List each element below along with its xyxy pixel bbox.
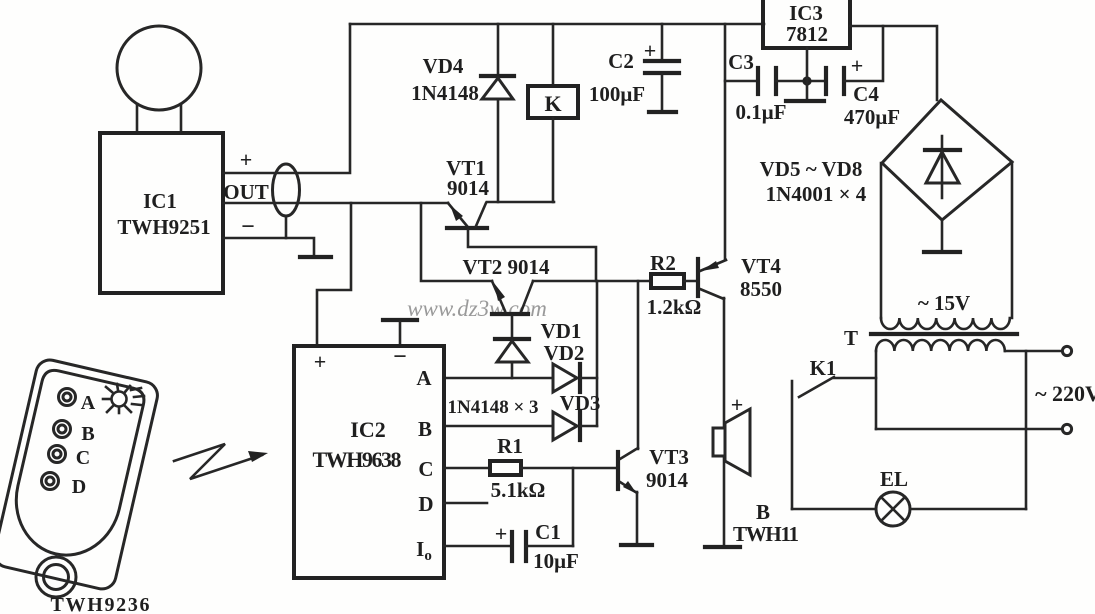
wire row B from IC2 [444,425,553,428]
transistor VT4 emitter [700,260,726,271]
svg-text:C: C [418,457,433,481]
node junction dot [802,76,811,85]
capacitor C2 plates [645,59,679,63]
svg-text:+: + [731,392,744,417]
capacitor C3 0.1uF plates [756,68,760,94]
transistor VT1 9014 emitter [448,203,467,226]
transistor VT3 base bar [616,452,620,489]
svg-text:TWH9638: TWH9638 [313,447,402,472]
svg-text:D: D [72,476,86,498]
ground under VT3 [621,543,652,547]
wire IC3 output to bridge top [850,26,937,100]
svg-text:0.1μF: 0.1μF [736,100,787,124]
wire VT4 collector down to speaker [723,298,726,428]
svg-text:D: D [418,492,433,516]
wire bridge left corner down to secondary [880,163,883,318]
bridge bottom stem [941,220,944,250]
svg-text:C1: C1 [535,520,561,544]
svg-text:470μF: 470μF [844,105,900,129]
svg-text:K1: K1 [810,356,837,380]
svg-text:K: K [544,91,561,116]
relay K bottom lead [552,118,555,202]
transistor VT4 collector [700,289,724,299]
svg-text:10μF: 10μF [533,549,579,573]
svg-text:+: + [314,349,327,374]
LED sun icon on remote [103,384,144,413]
wire speaker down [723,456,726,545]
svg-text:1.2kΩ: 1.2kΩ [647,295,702,319]
svg-text:C3: C3 [728,50,754,74]
svg-text:IC1: IC1 [143,189,177,213]
svg-text:TWH9251: TWH9251 [117,215,210,239]
remote button B [54,421,71,438]
ground under C2 [649,110,676,114]
svg-text:1N4148 × 3: 1N4148 × 3 [447,397,538,418]
wire row C from IC2 [444,467,490,470]
transistor VT2 9014 emitter [492,281,505,311]
svg-text:~ 15V: ~ 15V [918,291,970,315]
bridge inner diode [925,148,960,152]
svg-text:−: − [241,214,255,240]
svg-text:B: B [418,417,432,441]
wire mic stem left [136,104,139,133]
speaker B cone [725,409,750,475]
transistor VT1 collector [476,203,486,226]
svg-text:TWH9236: TWH9236 [51,594,150,614]
diode VD1 [495,337,529,341]
ground above IC2 [383,318,417,322]
svg-text:Io: Io [416,537,432,564]
zigzag transmit arrow [174,444,262,479]
transistor VT4 base bar [696,259,700,296]
svg-text:−: − [393,344,407,370]
svg-text:C4: C4 [853,82,879,106]
svg-text:R2: R2 [650,251,676,275]
capacitor C4 470uF plates [824,68,828,94]
wire VT2 base lead to VD1 [511,316,514,338]
wire VD2 out [580,377,597,380]
wire OUT row from IC1 [223,202,448,205]
svg-text:VT4: VT4 [741,254,781,278]
wire K1 left post down [791,381,794,509]
terminal circle bottom 220V [1062,424,1071,433]
wire R1 to VT3 base [521,467,616,470]
transistor VT2 base bar [492,312,528,316]
wire VT4 emitter up to rail (7812 input) [724,24,727,260]
wire VT1 base lead [468,230,596,281]
svg-text:+: + [644,38,657,63]
wire ellipse stem [285,216,288,238]
regulator IC3 7812 box [763,0,850,48]
wire plus row from IC1 [223,24,350,173]
relay K box [528,86,578,118]
svg-text:~ 220V: ~ 220V [1035,381,1095,406]
svg-text:R1: R1 [497,434,523,458]
wire bridge right corner down to secondary [1011,162,1014,318]
svg-text:8550: 8550 [740,277,782,301]
diode VD4 lead upper [497,24,500,74]
wire row Io from IC2 [444,545,511,548]
remote bottom button inner circle [44,565,69,590]
transistor VT3 collector [620,448,638,459]
transformer T primary winding [876,340,1005,351]
diode VD4 lead lower [497,99,500,202]
svg-text:1N4001 × 4: 1N4001 × 4 [766,182,867,206]
switch K1 wire to primary [834,377,876,380]
wire minus row from IC1 [223,238,314,255]
svg-text:100μF: 100μF [589,82,645,106]
svg-text:A: A [416,366,432,390]
remote button C [49,446,66,463]
svg-text:+: + [240,147,253,172]
svg-text:VD1: VD1 [541,319,582,343]
transistor VT2 collector [521,281,533,312]
wire C1 to junction [526,545,573,548]
svg-text:TWH11: TWH11 [733,522,799,546]
svg-text:OUT: OUT [223,180,269,204]
wire primary left lead down [875,351,878,429]
bridge inner diode lead [941,136,944,198]
ground under IC1 minus [300,255,331,259]
wire VT2 collector row [533,280,651,283]
svg-text:B: B [756,500,770,524]
svg-text:+: + [851,53,864,78]
resistor R2 box [651,274,684,288]
bridge rectifier VD5-VD8 diamond [882,100,1012,220]
svg-text:9014: 9014 [646,468,689,492]
svg-text:1N4148: 1N4148 [411,81,479,105]
wire C3 to node [776,80,826,83]
relay K top lead [552,24,555,86]
remote button A [59,389,76,406]
ground stem under node [806,81,809,100]
svg-text:9014: 9014 [447,176,490,200]
wire EL row right [910,508,1026,511]
wire C3 row [725,80,758,83]
wire row A from IC2 [444,377,553,380]
capacitor C1 plates [510,532,514,561]
transformer T core bar [871,332,1017,336]
svg-text:+: + [495,521,508,546]
switch K1 blade [799,377,834,397]
decoder IC2 TWH9638 box [294,346,444,578]
wire row D stub [444,502,487,505]
svg-text:VD2: VD2 [544,341,585,365]
lamp EL [876,492,910,526]
remote button D [42,473,59,490]
wire mic stem right [180,104,183,133]
svg-text:VD4: VD4 [423,54,464,78]
wire junction down to A-B diodes [596,281,599,426]
svg-text:7812: 7812 [786,22,828,46]
diode VD2 [553,364,577,392]
svg-text:VT2 9014: VT2 9014 [463,255,550,279]
capacitor C2 stem lower [661,74,664,110]
capacitor C2 stem upper [661,24,664,59]
wire top rail [350,23,764,26]
diode VD4 1N4148 [481,74,514,78]
speaker B driver box [713,428,725,456]
terminal circle top 220V [1062,346,1071,355]
wire VT3 collector up to R2 row [637,281,640,449]
wire OUT row down to VT2 emitter row [421,203,492,281]
diode VD1 lead [511,362,514,378]
node ellipse on OUT wires [273,164,300,216]
resistor R1 box [490,461,521,475]
wire junction up to row C [572,468,575,546]
wire OUT row down to IC2 plus [317,203,351,346]
wire lamp branch up to top terminal row [1025,351,1028,509]
svg-text:A: A [81,392,96,414]
svg-text:B: B [81,423,94,445]
wire VT3 emitter down [636,492,639,543]
svg-text:T: T [844,326,858,350]
transformer T secondary winding [881,318,1010,329]
transistor VT3 emitter [620,482,637,493]
wire C4 up to IC3 output row [844,26,883,81]
wire VD3 out [580,425,597,428]
svg-text:EL: EL [880,467,908,491]
svg-text:C2: C2 [608,49,634,73]
wire VT1 collector row to K [487,201,554,204]
wire EL row left [792,508,876,511]
ground under speaker [705,545,740,549]
svg-text:VT3: VT3 [649,445,689,469]
wire R2 to VT4 base [684,280,698,283]
ground bar under node [786,99,824,103]
wire primary right lead to terminal [1005,350,1062,353]
svg-text:5.1kΩ: 5.1kΩ [491,478,546,502]
svg-text:VD5 ~ VD8: VD5 ~ VD8 [760,157,863,181]
svg-text:IC2: IC2 [350,417,385,442]
ground bar under bridge [924,250,960,254]
remote bottom button outer circle [36,557,76,597]
diode VD3 [553,412,577,440]
svg-text:C: C [76,447,90,469]
op-amp IC1 TWH9251 box [100,133,223,293]
wire bottom 220V row [876,428,1062,431]
remote control TWH9236 body [0,357,160,591]
transistor VT1 base bar [447,226,487,230]
wire IC3 ground pin [806,48,809,81]
microphone ball of IC1 [117,26,201,110]
